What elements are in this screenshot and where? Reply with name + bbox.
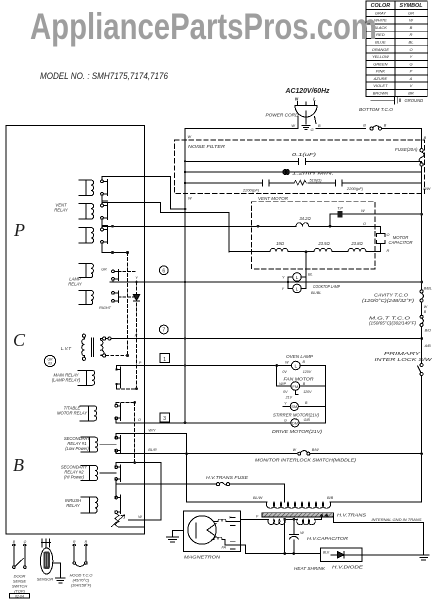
cooktop lamp feed wire <box>110 280 422 282</box>
svg-text:O: O <box>363 222 366 226</box>
svg-text:DM: DM <box>292 421 298 426</box>
ground legend symbol <box>371 96 400 104</box>
svg-text:2200(pF): 2200(pF) <box>242 188 260 193</box>
svg-text:0V: 0V <box>282 370 287 374</box>
bottom line to diode <box>245 553 320 555</box>
svg-text:W: W <box>291 124 295 128</box>
dashed LVT secondary return <box>106 355 128 357</box>
wire B to right bus <box>382 129 422 149</box>
svg-text:MONITOR INTERLOCK SWITCH(MIDDL: MONITOR INTERLOCK SWITCH(MIDDLE) <box>255 458 357 463</box>
svg-text:BOTTOM T.C.O: BOTTOM T.C.O <box>359 107 393 112</box>
svg-text:POWER CORD: POWER CORD <box>266 113 300 119</box>
H.V. transformer primary <box>187 454 267 502</box>
svg-text:B/B: B/B <box>327 496 334 500</box>
svg-text:DRIVE MOTOR(21V): DRIVE MOTOR(21V) <box>272 429 323 434</box>
color/symbol table <box>366 1 427 97</box>
vent motor dashed enclosure <box>252 202 375 269</box>
svg-text:CAPACITOR: CAPACITOR <box>388 240 412 245</box>
relay coil vent relay 2 <box>79 204 94 220</box>
magnetron chassis ground <box>173 531 184 537</box>
svg-text:0.1(uF): 0.1(uF) <box>292 152 317 157</box>
svg-text:G/B: G/B <box>304 418 311 422</box>
svg-text:NOISE FILTER: NOISE FILTER <box>188 144 226 150</box>
drive motor feed wire <box>116 418 290 423</box>
cavity TCO <box>420 290 423 293</box>
svg-text:O: O <box>387 233 390 237</box>
t/table motor relay coil <box>80 406 97 421</box>
svg-text:RELAY: RELAY <box>68 282 83 287</box>
H.V. capacitor <box>293 519 295 534</box>
oven lamp <box>286 354 313 359</box>
svg-text:AC120V/60Hz: AC120V/60Hz <box>285 86 330 95</box>
fuse 20A <box>420 149 423 152</box>
right ground symbol <box>418 555 429 560</box>
H.V. trans fuse wire <box>116 479 216 484</box>
magnetron filament leads <box>214 521 218 523</box>
svg-text:03: 03 <box>48 362 52 366</box>
capacitor 0.1uF <box>299 158 306 164</box>
svg-text:MODEL NO. : SMH7175,7174,7176: MODEL NO. : SMH7175,7174,7176 <box>40 71 168 81</box>
svg-text:510(Ω): 510(Ω) <box>310 178 323 183</box>
wire relay1 to vent motor lower <box>102 195 229 252</box>
relay contact lamp relay <box>112 270 115 273</box>
wire W filter to PCB (upper) <box>102 176 185 209</box>
svg-text:B/O: B/O <box>425 329 432 333</box>
secondary relay 1 contact <box>115 436 118 439</box>
connector box 3 <box>160 413 170 422</box>
wire relay3 to node <box>102 243 128 252</box>
svg-text:7: 7 <box>162 328 165 334</box>
svg-text:VENT MOTOR: VENT MOTOR <box>258 196 288 201</box>
svg-text:AppliancePartsPros.com: AppliancePartsPros.com <box>30 6 377 47</box>
hood TCO <box>73 544 76 562</box>
MGT TCO <box>420 315 423 318</box>
svg-text:GR: GR <box>408 10 414 15</box>
capacitor 2200pF left <box>263 180 270 186</box>
filament winding <box>241 518 269 520</box>
svg-text:FUSE(20A): FUSE(20A) <box>395 147 418 152</box>
secondary relay 1 coil <box>81 437 98 452</box>
svg-text:A: A <box>409 76 413 81</box>
svg-text:OVEN LAMP: OVEN LAMP <box>286 354 313 359</box>
svg-text:L: L <box>296 275 299 281</box>
svg-text:GROUND: GROUND <box>405 98 424 103</box>
svg-text:H.V.TRANS FUSE: H.V.TRANS FUSE <box>206 475 248 480</box>
svg-text:MOTOR RELAY: MOTOR RELAY <box>57 411 88 416</box>
secondary relay 2 coil <box>81 466 98 481</box>
wire relay2 to vent motor winding <box>102 219 330 226</box>
svg-text:W: W <box>300 531 304 535</box>
svg-text:Y: Y <box>410 54 413 59</box>
svg-text:Y: Y <box>135 276 138 280</box>
svg-text:O: O <box>409 47 412 52</box>
gas sensor <box>42 539 49 547</box>
svg-text:PINK: PINK <box>376 69 386 74</box>
svg-text:L.V.T: L.V.T <box>61 346 71 351</box>
svg-text:ORANGE: ORANGE <box>372 47 390 52</box>
W/Y wire <box>116 433 186 453</box>
svg-text:YELLOW: YELLOW <box>372 54 390 59</box>
svg-text:SENSOR: SENSOR <box>37 576 54 581</box>
bottom T.C.O switch <box>370 127 373 130</box>
svg-text:B: B <box>363 123 366 127</box>
main W wire vertical <box>184 129 186 423</box>
svg-text:L: L <box>294 363 297 369</box>
svg-text:W/P: W/P <box>279 382 286 386</box>
svg-text:H.V.CAPACITOR: H.V.CAPACITOR <box>307 536 349 541</box>
PCB outline <box>6 126 145 535</box>
inrush relay contact <box>115 496 118 499</box>
svg-text:34.2Ω: 34.2Ω <box>299 216 311 221</box>
svg-text:W: W <box>285 361 289 365</box>
svg-text:23.8Ω: 23.8Ω <box>350 241 363 246</box>
svg-text:(120/0°C)(248/32°F): (120/0°C)(248/32°F) <box>362 298 415 303</box>
svg-text:V: V <box>410 83 413 88</box>
inrush relay coil <box>81 497 98 513</box>
svg-text:FA: FA <box>222 546 227 550</box>
svg-text:RELAY: RELAY <box>66 503 81 508</box>
filter line 1 <box>185 160 422 162</box>
svg-text:W: W <box>293 448 297 452</box>
cooktop lamp pair <box>302 252 307 289</box>
svg-text:VIOLET: VIOLET <box>373 83 388 88</box>
svg-text:BR: BR <box>408 91 414 96</box>
boxed-1 wire / oven lamp feed <box>117 365 292 367</box>
primary interlock switch <box>375 351 433 362</box>
H.V. transformer core <box>262 513 334 517</box>
right bus mid <box>421 302 423 315</box>
svg-text:COOKTOP LAMP: COOKTOP LAMP <box>313 284 340 289</box>
svg-text:FM: FM <box>292 384 298 389</box>
vent relay label <box>54 203 69 213</box>
vent motor run windings <box>229 251 381 253</box>
svg-text:(LAMP RELAY): (LAMP RELAY) <box>52 378 81 383</box>
svg-text:L: L <box>313 97 316 102</box>
H.V. diode assembly <box>321 548 363 562</box>
svg-text:W: W <box>188 135 192 139</box>
wire B from plug to bottom TCO <box>315 117 366 129</box>
node circle 6 <box>159 266 168 275</box>
svg-text:BROWN: BROWN <box>373 91 388 96</box>
svg-text:R: R <box>387 249 390 253</box>
svg-text:PRIMARY: PRIMARY <box>384 351 422 356</box>
svg-text:FAN MOTOR: FAN MOTOR <box>284 377 315 382</box>
svg-text:HEAT SHRINK: HEAT SHRINK <box>294 566 325 571</box>
svg-text:120V: 120V <box>303 390 312 394</box>
svg-text:MAGNETRON: MAGNETRON <box>184 554 221 559</box>
svg-text:STIRRER MOTOR(21V): STIRRER MOTOR(21V) <box>273 413 320 418</box>
secondary relay 2 contact <box>115 466 118 469</box>
wire sec2 top to W node <box>116 463 161 520</box>
svg-text:SYMBOL: SYMBOL <box>399 3 422 9</box>
inductor 1.2mH <box>283 169 289 174</box>
svg-text:02-04: 02-04 <box>15 595 24 599</box>
svg-text:BL: BL <box>308 272 313 276</box>
relay contact vent relay 2 <box>101 204 104 207</box>
svg-text:W: W <box>138 515 142 519</box>
svg-text:O: O <box>138 418 141 422</box>
svg-text:O: O <box>24 540 27 544</box>
svg-text:W: W <box>188 197 192 201</box>
svg-text:G: G <box>311 127 314 132</box>
filter line 2 <box>185 171 422 173</box>
node circle 7 <box>159 325 168 334</box>
svg-text:B/W: B/W <box>423 187 431 191</box>
svg-text:BL/W: BL/W <box>253 496 263 500</box>
motor capacitor <box>330 226 381 233</box>
diode on D2 <box>133 295 139 301</box>
svg-text:A/B: A/B <box>424 344 432 348</box>
monitor interlock switch <box>298 452 301 455</box>
svg-text:B: B <box>410 25 413 30</box>
junction dots filter <box>184 160 186 184</box>
svg-text:(TOP): (TOP) <box>14 589 25 594</box>
svg-text:INTERNAL GND IN TRANS: INTERNAL GND IN TRANS <box>372 518 422 522</box>
magnetron <box>184 511 241 552</box>
svg-text:19Ω: 19Ω <box>276 241 285 246</box>
svg-text:B: B <box>384 123 387 127</box>
svg-text:BL: BL <box>409 40 414 45</box>
svg-text:(104/158°F): (104/158°F) <box>71 583 92 588</box>
svg-text:AZURE: AZURE <box>373 76 388 81</box>
relay contact vent relay 1 <box>101 180 104 183</box>
relay coil 3 <box>79 228 94 244</box>
relay coil lamp relay <box>79 264 93 278</box>
svg-text:CAVITY T.C.O: CAVITY T.C.O <box>374 293 409 298</box>
plug earth pin and ground <box>305 111 307 124</box>
relay coil vent relay 1 <box>79 180 94 196</box>
svg-text:2200(pF): 2200(pF) <box>346 186 364 191</box>
dashed node line D1 <box>127 253 129 356</box>
main relay contact <box>116 368 118 370</box>
svg-text:W: W <box>424 305 428 309</box>
svg-text:R: R <box>410 32 413 37</box>
door sense switch <box>13 544 16 566</box>
svg-text:INTER LOCK S/W: INTER LOCK S/W <box>375 357 433 362</box>
inrush thermistor <box>115 514 145 528</box>
winding 34.2 ohm <box>257 225 260 228</box>
svg-text:P: P <box>13 220 25 240</box>
svg-text:1.2mH MIN.: 1.2mH MIN. <box>292 171 334 176</box>
svg-text:BLK: BLK <box>323 551 330 555</box>
t/table relay contact <box>115 404 118 407</box>
connector box 1 <box>160 354 170 363</box>
svg-text:0V: 0V <box>283 390 288 394</box>
winding return to bottom <box>284 519 286 553</box>
H.V. secondary winding <box>297 519 316 524</box>
noise filter dashed enclosure <box>175 140 425 194</box>
svg-text:W: W <box>361 209 365 213</box>
svg-text:C: C <box>13 330 26 350</box>
svg-text:GREEN: GREEN <box>373 61 387 66</box>
svg-text:(Low Power): (Low Power) <box>65 446 89 451</box>
svg-text:RED: RED <box>376 32 385 37</box>
wire W from plug <box>185 117 298 129</box>
svg-text:23.5Ω: 23.5Ω <box>317 241 330 246</box>
svg-text:6: 6 <box>162 268 165 274</box>
svg-text:R: R <box>135 334 138 338</box>
sensor ground <box>53 563 61 578</box>
svg-text:1: 1 <box>163 357 166 363</box>
relay contact 5 <box>112 291 115 294</box>
svg-text:GR: GR <box>101 268 107 272</box>
lamp relay label <box>68 277 83 287</box>
svg-text:W/Y: W/Y <box>148 428 156 432</box>
svg-text:(150/65°C)(302/149°F): (150/65°C)(302/149°F) <box>369 320 417 325</box>
svg-text:B: B <box>13 455 24 475</box>
monitor interlock feed wire BL/R <box>116 451 297 454</box>
svg-text:BL/BL: BL/BL <box>311 291 321 295</box>
relay coil 5 <box>79 291 93 305</box>
svg-text:SM: SM <box>291 404 297 409</box>
L.V.T transformer <box>82 334 85 337</box>
svg-text:B/BL: B/BL <box>424 286 432 290</box>
right bus upper <box>421 166 423 290</box>
wire R LVT to bus <box>106 338 108 340</box>
fan motor <box>284 377 315 382</box>
svg-text:(HI Power): (HI Power) <box>64 475 85 480</box>
svg-text:H.V.DIODE: H.V.DIODE <box>332 564 363 569</box>
svg-text:21V: 21V <box>285 396 293 400</box>
drive motor <box>291 419 299 427</box>
filter line 3 <box>185 182 422 184</box>
svg-text:120V: 120V <box>303 370 312 374</box>
thermal protector T.P <box>330 214 422 226</box>
svg-text:G: G <box>409 61 412 66</box>
svg-text:P: P <box>139 361 142 365</box>
junction node W <box>184 208 187 211</box>
dashed D2b <box>134 402 136 462</box>
capacitor 2200pF right <box>336 180 343 186</box>
svg-text:RELAY: RELAY <box>54 208 69 213</box>
svg-text:P: P <box>410 69 413 74</box>
svg-text:B/W: B/W <box>312 448 319 452</box>
stirrer motor <box>290 402 298 410</box>
connector circle GR 03 <box>44 355 55 366</box>
svg-text:L: L <box>296 286 299 292</box>
svg-text:BL/R: BL/R <box>148 448 157 452</box>
svg-text:B: B <box>424 136 427 140</box>
svg-text:T.P: T.P <box>337 205 343 210</box>
main relay (lamp relay) coil <box>78 370 95 385</box>
svg-text:H.V.TRANS: H.V.TRANS <box>337 513 366 518</box>
svg-text:G: G <box>284 418 287 422</box>
svg-text:RIGHT: RIGHT <box>99 306 111 310</box>
svg-text:3: 3 <box>163 416 166 422</box>
relay contact 3 <box>101 228 104 231</box>
resistor 510 ohm <box>294 180 306 185</box>
